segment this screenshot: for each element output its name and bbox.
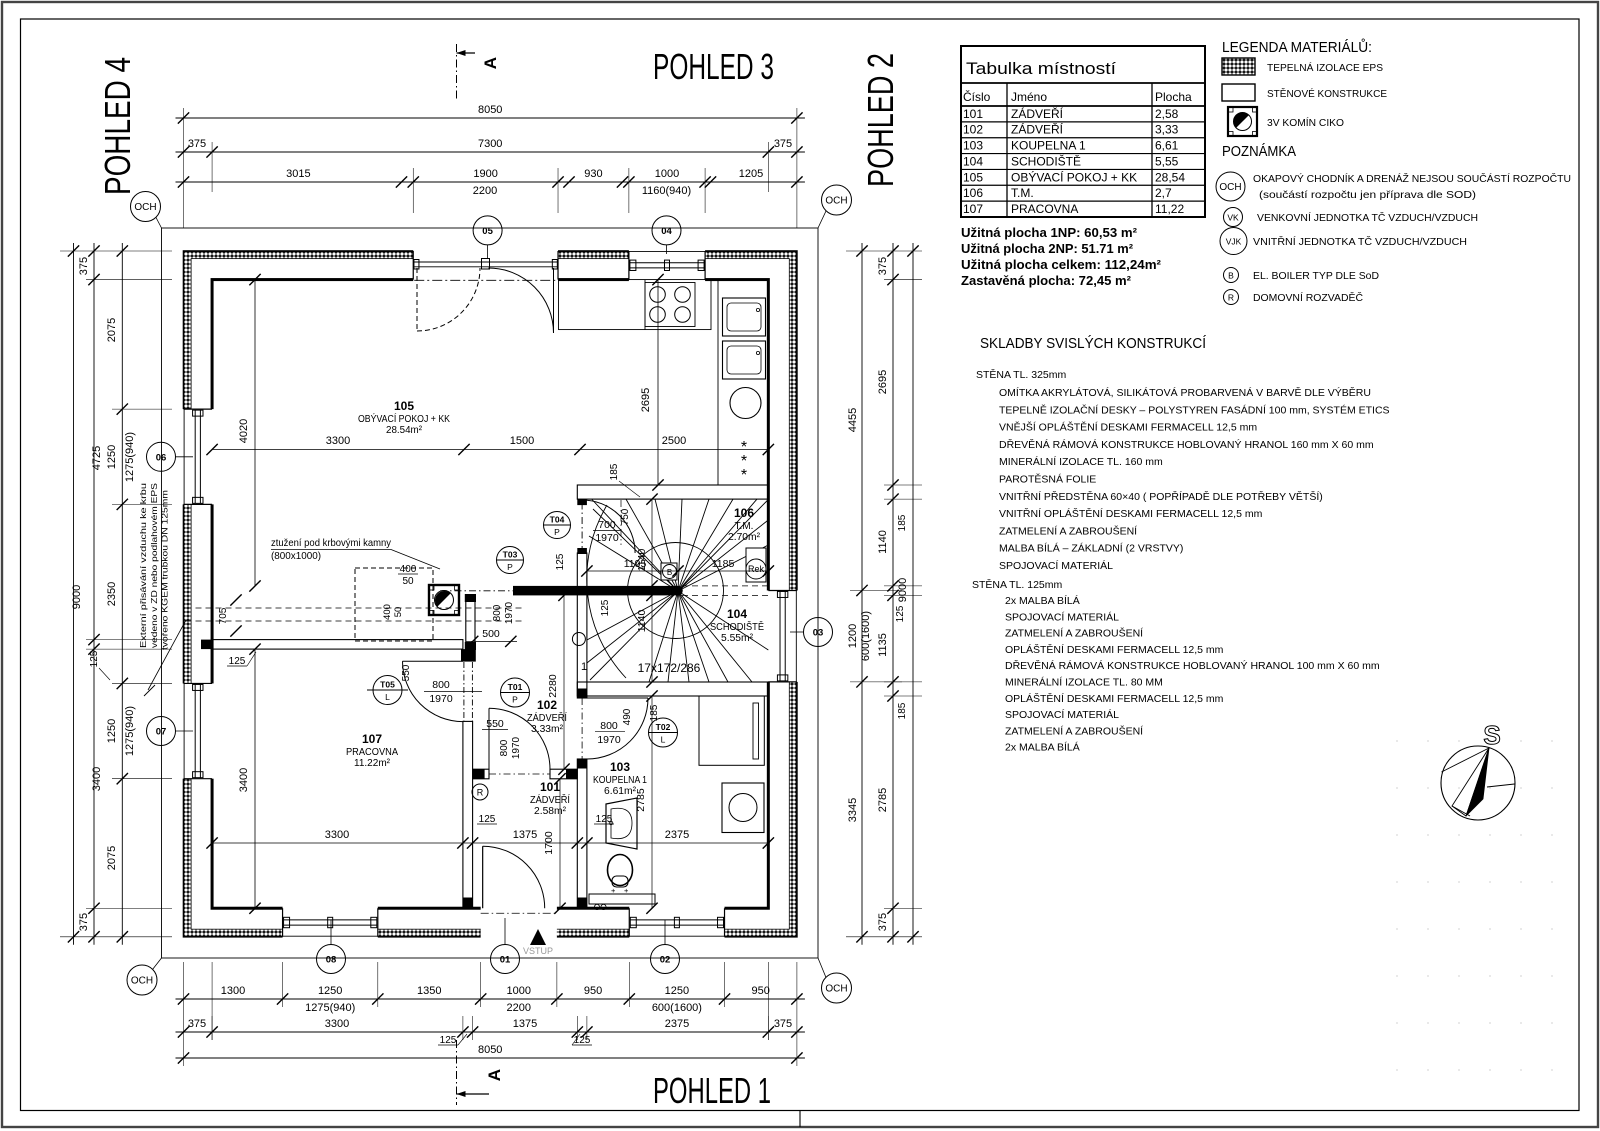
svg-text:3015: 3015 (286, 168, 310, 180)
svg-text:103: 103 (610, 760, 630, 774)
border bottom divider (799, 1111, 801, 1128)
svg-text:Externí přisávání vzduchu ke k: Externí přisávání vzduchu ke krbu (138, 483, 148, 648)
svg-text:T04: T04 (550, 515, 565, 525)
kitchen stove burners (645, 283, 695, 327)
svg-text:TEPELNĚ IZOLAČNÍ DESKY – POLYS: TEPELNĚ IZOLAČNÍ DESKY – POLYSTYREN FASÁ… (999, 403, 1390, 416)
svg-text:tvořeno KGEM trubkou DN 125: tvořeno KGEM trubkou DN 125mm (160, 490, 170, 650)
dimension row pracovna 3300 1375 2375 (212, 842, 768, 844)
svg-text:OCH: OCH (131, 976, 153, 987)
svg-text:600(1600): 600(1600) (860, 611, 872, 661)
svg-text:101: 101 (540, 780, 560, 794)
svg-text:1275(940): 1275(940) (124, 432, 136, 482)
opening left window 1 gap (181, 409, 214, 504)
svg-text:1185: 1185 (712, 558, 735, 570)
svg-text:2075: 2075 (106, 318, 118, 342)
svg-text:VSTUP: VSTUP (523, 946, 553, 956)
dimension right extension lines (846, 250, 922, 252)
dimension stair 1195 1185 row (587, 570, 768, 572)
legend VK note (1224, 208, 1243, 227)
svg-text:MINERÁLNÍ IZOLACE TL. 80 MM: MINERÁLNÍ IZOLACE TL. 80 MM (1005, 676, 1163, 689)
svg-text:9000: 9000 (897, 578, 909, 602)
svg-text:SPOJOVACÍ MATERIÁL: SPOJOVACÍ MATERIÁL (999, 559, 1113, 572)
svg-text:125: 125 (596, 814, 613, 825)
svg-text:OBÝVACÍ POKOJ + KK: OBÝVACÍ POKOJ + KK (358, 412, 450, 425)
svg-text:1970: 1970 (595, 532, 619, 544)
svg-text:2350: 2350 (106, 582, 118, 606)
svg-text:2500: 2500 (662, 435, 686, 447)
svg-text:(800x1000): (800x1000) (271, 550, 321, 562)
svg-text:04: 04 (661, 226, 672, 237)
svg-text:105: 105 (394, 399, 414, 413)
svg-text:4020: 4020 (238, 419, 250, 443)
svg-text:125: 125 (479, 814, 496, 825)
svg-text:ZÁDVEŘÍ: ZÁDVEŘÍ (1011, 122, 1064, 137)
svg-text:1250: 1250 (318, 985, 342, 997)
svg-text:OBÝVACÍ POKOJ + KK: OBÝVACÍ POKOJ + KK (1011, 169, 1137, 184)
svg-text:07: 07 (156, 727, 167, 738)
dimension right chain 4455 1200 3345 (861, 243, 863, 945)
svg-text:3400: 3400 (91, 767, 103, 791)
svg-text:T01: T01 (508, 682, 523, 692)
svg-text:Tabulka místností: Tabulka místností (966, 59, 1116, 78)
svg-text:102: 102 (963, 123, 983, 137)
svg-text:2.70m²: 2.70m² (728, 532, 761, 543)
legend chimney symbol (1228, 107, 1257, 136)
legend VJK note (1220, 228, 1247, 255)
svg-text:50: 50 (402, 576, 414, 587)
dimension stair 1140 vertical (651, 499, 653, 682)
svg-text:8050: 8050 (478, 104, 502, 116)
svg-text:375: 375 (188, 1018, 206, 1030)
door tag T03 (497, 547, 524, 574)
svg-text:375: 375 (877, 913, 889, 931)
axis OCH bottom-right (822, 973, 852, 1003)
dot grid decorative (1396, 740, 1398, 742)
svg-text:400: 400 (400, 564, 417, 575)
dimension top extension lines (412, 168, 414, 213)
svg-text:ZÁDVEŘÍ: ZÁDVEŘÍ (527, 711, 567, 724)
svg-text:(součástí rozpočtu jen příprav: (součástí rozpočtu jen příprava dle SOD) (1259, 189, 1476, 201)
svg-text:PRACOVNA: PRACOVNA (346, 747, 398, 758)
svg-text:Užitná plocha 2NP: 51.71 m²: Užitná plocha 2NP: 51.71 m² (961, 242, 1133, 256)
svg-text:750: 750 (620, 508, 631, 525)
svg-text:185: 185 (897, 702, 908, 719)
interior wall 102/101 (125) (473, 769, 489, 779)
stair winder arcs (587, 505, 626, 678)
svg-text:1250: 1250 (665, 985, 689, 997)
svg-text:STĚNA TL. 125mm: STĚNA TL. 125mm (972, 578, 1063, 591)
svg-text:*: * (741, 467, 747, 484)
svg-text:1140: 1140 (636, 549, 648, 572)
svg-text:125: 125 (229, 656, 246, 667)
svg-text:375: 375 (774, 1018, 792, 1030)
svg-text:125: 125 (574, 1035, 591, 1046)
axis 03 circle and line (790, 631, 804, 633)
axis 06 circle and line (175, 456, 193, 458)
opening right window gap (766, 590, 799, 681)
svg-text:SCHODIŠTĚ: SCHODIŠTĚ (710, 620, 764, 633)
svg-text:02: 02 (660, 955, 671, 966)
svg-text:VNĚJŠÍ OPLÁŠTĚNÍ DESKAMI FERMA: VNĚJŠÍ OPLÁŠTĚNÍ DESKAMI FERMACELL 12,5 … (999, 421, 1257, 434)
svg-text:1970: 1970 (429, 693, 453, 705)
svg-text:STĚNA TL. 325mm: STĚNA TL. 325mm (976, 368, 1067, 381)
exterior wall outer face (184, 251, 797, 937)
axis 05 circle and line (487, 245, 489, 259)
svg-text:1140: 1140 (636, 610, 648, 633)
opening left window 2 gap (181, 683, 214, 778)
air duct dashed lines (186, 607, 526, 609)
svg-text:2x MALBA BÍLÁ: 2x MALBA BÍLÁ (1005, 594, 1080, 607)
svg-text:S: S (1483, 720, 1500, 750)
svg-text:1900: 1900 (473, 168, 497, 180)
window sill outer lines (629, 251, 705, 253)
svg-text:375: 375 (188, 138, 206, 150)
svg-text:B: B (1228, 271, 1234, 281)
svg-text:1000: 1000 (655, 168, 679, 180)
svg-text:3V KOMÍN CIKO: 3V KOMÍN CIKO (1267, 116, 1344, 129)
svg-text:VK: VK (1227, 213, 1239, 223)
svg-text:PRACOVNA: PRACOVNA (1011, 202, 1078, 216)
svg-text:6,61: 6,61 (1155, 139, 1179, 153)
svg-text:L: L (661, 735, 666, 745)
svg-text:107: 107 (963, 202, 983, 216)
svg-text:B: B (667, 568, 672, 577)
chimney 3V KOMIN (429, 585, 459, 615)
dimension 2785 vertical koupelna (651, 696, 653, 908)
svg-text:A: A (485, 1069, 504, 1081)
svg-text:Plocha: Plocha (1155, 90, 1192, 104)
svg-text:5,55: 5,55 (1155, 154, 1179, 168)
door T01 swing (488, 708, 490, 769)
svg-text:1300: 1300 (221, 985, 245, 997)
dimension bottom row segments (176, 998, 805, 1000)
door T05 swing pracovna (403, 660, 463, 662)
dimension bottom extension lines (183, 962, 185, 1066)
svg-text:1250: 1250 (106, 719, 118, 743)
svg-text:950: 950 (752, 985, 770, 997)
svg-text:03: 03 (813, 628, 824, 639)
svg-text:R: R (1228, 293, 1234, 303)
svg-text:800: 800 (432, 679, 450, 691)
door T02 swing koupelna (587, 697, 648, 699)
dimension 2280 vertical 102 (563, 595, 565, 769)
svg-text:T.M.: T.M. (1011, 186, 1034, 200)
svg-text:125: 125 (440, 1035, 457, 1046)
svg-text:1375: 1375 (513, 1018, 537, 1030)
svg-text:930: 930 (584, 168, 602, 180)
interior wall stub near chimney (466, 596, 475, 649)
opening terrace door gap (413, 249, 558, 282)
svg-text:1000: 1000 (507, 985, 531, 997)
svg-text:06: 06 (156, 452, 167, 463)
opening top window gap (629, 249, 705, 282)
legend B note (1224, 268, 1239, 283)
svg-text:DŘEVĚNÁ RÁMOVÁ KONSTRUKCE HOBL: DŘEVĚNÁ RÁMOVÁ KONSTRUKCE HOBLOVANÝ HRAN… (999, 438, 1374, 451)
svg-text:1700: 1700 (543, 831, 555, 855)
svg-text:7300: 7300 (478, 138, 502, 150)
stair winder treads (626, 499, 678, 591)
dimension living room 3300 1500 2500 (212, 449, 768, 451)
svg-text:POHLED 3: POHLED 3 (653, 46, 774, 87)
washbasin (606, 798, 637, 849)
wall junction blocks (201, 640, 212, 650)
svg-text:375: 375 (78, 257, 90, 275)
svg-text:Užitná plocha celkem: 112,24m: Užitná plocha celkem: 112,24m² (961, 258, 1161, 272)
svg-text:ztužení pod krbovými kamny: ztužení pod krbovými kamny (271, 537, 392, 549)
kitchen sink bowls (723, 298, 766, 336)
axis 01 circle and line (504, 918, 506, 945)
door T05 jamb block (461, 649, 476, 662)
svg-text:2200: 2200 (473, 185, 497, 197)
svg-text:950: 950 (584, 985, 602, 997)
door T02 jamb blocks (577, 689, 587, 699)
fireplace stiffening dashed rect (355, 568, 433, 641)
svg-text:08: 08 (326, 955, 337, 966)
svg-text:2,58: 2,58 (1155, 107, 1179, 121)
svg-text:1: 1 (581, 661, 587, 673)
svg-text:VNITŘNÍ OPLÁŠTĚNÍ DESKAMI FERM: VNITŘNÍ OPLÁŠTĚNÍ DESKAMI FERMACELL 12,5… (999, 507, 1263, 520)
svg-text:106: 106 (734, 506, 754, 520)
opening bottom window 2 gap (629, 906, 724, 939)
room table Tabulka mistnosti (961, 46, 1205, 217)
svg-text:T02: T02 (656, 722, 671, 732)
svg-text:R: R (477, 788, 484, 798)
kitchen counter right wall (718, 280, 768, 485)
svg-text:1160(940): 1160(940) (642, 185, 691, 197)
svg-text:2075: 2075 (106, 846, 118, 870)
svg-text:POZNÁMKA: POZNÁMKA (1222, 143, 1296, 160)
interior wall pracovna top (125) (212, 640, 463, 650)
dimension top sublabels 2200 1160(940) (396, 176, 407, 187)
svg-text:2200: 2200 (507, 1002, 531, 1014)
svg-text:P: P (554, 527, 560, 537)
dimension 1700 vertical 101 (559, 779, 561, 908)
interior wall stair top (185) (577, 485, 768, 499)
dimension kitchen 2695 vertical (657, 280, 659, 485)
svg-text:600(1600): 600(1600) (652, 1002, 702, 1014)
svg-text:28,54: 28,54 (1155, 170, 1185, 184)
svg-text:102: 102 (537, 698, 557, 712)
window bottom W3 (282, 908, 284, 937)
svg-text:375: 375 (774, 138, 792, 150)
svg-text:125: 125 (555, 553, 566, 570)
svg-text:05: 05 (482, 226, 493, 237)
svg-text:17x172/286: 17x172/286 (638, 661, 701, 675)
dimension top row 8050 (176, 117, 805, 119)
svg-text:VJK: VJK (1226, 237, 1242, 247)
stair boiler symbol B (661, 563, 677, 580)
exterior wall hatch inner line (191, 259, 789, 930)
dimension left chain 2075 1250 2350 1250 2075 (121, 243, 123, 945)
svg-text:1250: 1250 (106, 445, 118, 469)
opening entry door gap (481, 906, 557, 939)
svg-text:5.55m²: 5.55m² (721, 633, 754, 644)
window left W1 (184, 408, 213, 410)
axis OCH top-left (131, 192, 161, 222)
window right WR (768, 589, 797, 591)
svg-text:TEPELNÁ IZOLACE EPS: TEPELNÁ IZOLACE EPS (1267, 61, 1383, 74)
svg-text:125: 125 (895, 605, 906, 622)
svg-text:1135: 1135 (877, 633, 889, 657)
toilet (608, 855, 633, 886)
svg-text:OPLÁŠTĚNÍ DESKAMI FERMACELL 12: OPLÁŠTĚNÍ DESKAMI FERMACELL 12,5 mm (1005, 692, 1224, 705)
svg-text:3300: 3300 (326, 435, 350, 447)
svg-text:OPLÁŠTĚNÍ DESKAMI FERMACELL 12: OPLÁŠTĚNÍ DESKAMI FERMACELL 12,5 mm (1005, 643, 1224, 656)
door T04 jamb blocks (577, 499, 587, 505)
svg-text:2785: 2785 (635, 788, 647, 812)
svg-text:107: 107 (362, 732, 382, 746)
svg-text:1200: 1200 (847, 624, 859, 648)
door T04 swing stair (581, 500, 583, 553)
svg-text:ZÁDVEŘÍ: ZÁDVEŘÍ (530, 793, 570, 806)
svg-text:P: P (512, 695, 518, 705)
axis 08 circle and line (330, 920, 332, 945)
dimension stair 750 (620, 500, 622, 545)
dimension right chain segments (892, 243, 894, 945)
svg-text:DOMOVNÍ ROZVADĚČ: DOMOVNÍ ROZVADĚČ (1253, 291, 1363, 304)
kitchen counter top wall (559, 280, 711, 330)
svg-text:125: 125 (600, 599, 611, 616)
svg-text:PAROTĚSNÁ FOLIE: PAROTĚSNÁ FOLIE (999, 473, 1096, 486)
svg-text:8050: 8050 (478, 1044, 502, 1056)
svg-text:11,22: 11,22 (1155, 202, 1184, 216)
svg-text:1275(940): 1275(940) (124, 706, 136, 756)
svg-text:1205: 1205 (739, 168, 763, 180)
bath bench (589, 894, 655, 904)
svg-text:1970: 1970 (504, 601, 515, 624)
svg-text:STĚNOVÉ KONSTRUKCE: STĚNOVÉ KONSTRUKCE (1267, 87, 1387, 100)
door tag T02 (649, 718, 678, 747)
svg-text:OCH: OCH (825, 196, 847, 207)
rekuperace box Rek (746, 548, 766, 582)
svg-text:104: 104 (727, 607, 747, 621)
svg-text:800: 800 (600, 720, 618, 732)
svg-text:POHLED 4: POHLED 4 (97, 57, 138, 195)
window bottom W4 (628, 908, 630, 937)
svg-text:2695: 2695 (640, 388, 652, 412)
svg-text:POHLED 2: POHLED 2 (860, 53, 901, 187)
svg-text:KOUPELNA 1: KOUPELNA 1 (593, 775, 647, 786)
svg-text:2375: 2375 (665, 829, 689, 841)
legend wall swatch (1222, 84, 1255, 101)
interior wall koupelna top (185) (577, 682, 768, 696)
svg-text:125: 125 (89, 650, 100, 667)
svg-text:705: 705 (218, 607, 229, 624)
svg-text:550: 550 (486, 718, 504, 730)
svg-text:490: 490 (622, 708, 633, 725)
rozvadec symbol R (472, 784, 488, 800)
rail wall stairs (black) (513, 586, 678, 596)
svg-text:800: 800 (499, 739, 510, 756)
svg-text:1140: 1140 (877, 530, 889, 554)
svg-text:1375: 1375 (513, 829, 537, 841)
dimension top row segments (176, 181, 805, 183)
window top B (628, 251, 630, 280)
svg-text:9000: 9000 (71, 585, 83, 609)
svg-text:1970: 1970 (597, 734, 621, 746)
svg-text:105: 105 (963, 170, 983, 184)
svg-text:P: P (507, 562, 513, 572)
svg-text:ZATMELENÍ A ZABROUŠENÍ: ZATMELENÍ A ZABROUŠENÍ (999, 524, 1137, 537)
svg-text:LEGENDA MATERIÁLŮ:: LEGENDA MATERIÁLŮ: (1222, 38, 1372, 56)
svg-text:50: 50 (393, 607, 404, 618)
svg-text:01: 01 (500, 955, 511, 966)
svg-text:185: 185 (897, 514, 908, 531)
svg-text:MINERÁLNÍ IZOLACE TL. 160 mm: MINERÁLNÍ IZOLACE TL. 160 mm (999, 455, 1163, 468)
svg-text:1500: 1500 (510, 435, 534, 447)
svg-text:185: 185 (609, 463, 620, 480)
svg-text:SCHODIŠTĚ: SCHODIŠTĚ (1011, 153, 1081, 168)
svg-text:1350: 1350 (417, 985, 441, 997)
door tag T05 (373, 676, 402, 705)
svg-text:Rek: Rek (748, 564, 765, 574)
svg-text:3,33: 3,33 (1155, 123, 1179, 137)
interior wall 107/101 vertical (125) (463, 721, 473, 908)
door tag T01 (501, 678, 530, 707)
dimension living 4020 vertical (254, 280, 256, 586)
svg-text:OMÍTKA AKRYLÁTOVÁ, SILIKÁTOVÁ: OMÍTKA AKRYLÁTOVÁ, SILIKÁTOVÁ PROBARVENÁ… (999, 386, 1371, 399)
svg-text:2.58m²: 2.58m² (534, 806, 567, 817)
svg-text:Užitná plocha 1NP: 60,53 m²: Užitná plocha 1NP: 60,53 m² (961, 226, 1137, 240)
svg-text:VENKOVNÍ JEDNOTKA TČ VZDUCH/VZ: VENKOVNÍ JEDNOTKA TČ VZDUCH/VZDUCH (1257, 211, 1478, 224)
section line A bottom (456, 1040, 458, 1105)
svg-text:ZÁDVEŘÍ: ZÁDVEŘÍ (1011, 106, 1064, 121)
svg-text:Zastavěná plocha: 72,45 m²: Zastavěná plocha: 72,45 m² (961, 274, 1131, 288)
dimension pracovna 3400 vertical (254, 649, 256, 908)
terrace door frame and leaves (412, 251, 414, 280)
svg-text:550: 550 (401, 664, 412, 681)
dimension left chain 9000 (73, 243, 75, 945)
svg-text:375: 375 (877, 257, 889, 275)
svg-text:3300: 3300 (325, 829, 349, 841)
svg-text:375: 375 (78, 913, 90, 931)
legend EPS hatch swatch (1222, 58, 1255, 75)
axis 04 circle and line (666, 245, 668, 254)
svg-text:28.54m²: 28.54m² (386, 425, 423, 436)
svg-text:1970: 1970 (511, 736, 522, 759)
exterior wall interior face (212, 280, 768, 909)
svg-text:2785: 2785 (877, 788, 889, 812)
axis 02 circle and line (664, 920, 666, 945)
dimension bottom row 375 3300 1375 2375 375 (176, 1031, 805, 1033)
svg-text:500: 500 (482, 628, 500, 640)
svg-text:700: 700 (598, 519, 616, 531)
svg-text:OCH: OCH (134, 202, 156, 213)
svg-text:T05: T05 (380, 680, 395, 690)
svg-text:KOUPELNA 1: KOUPELNA 1 (1011, 139, 1086, 153)
svg-text:2x MALBA BÍLÁ: 2x MALBA BÍLÁ (1005, 741, 1080, 754)
svg-text:4455: 4455 (847, 408, 859, 432)
svg-text:1275(940): 1275(940) (305, 1002, 355, 1014)
svg-text:SPOJOVACÍ MATERIÁL: SPOJOVACÍ MATERIÁL (1005, 610, 1119, 623)
svg-text:2,7: 2,7 (1155, 186, 1172, 200)
compass rose (1441, 746, 1515, 820)
exterior wall EPS hatch band (184, 251, 797, 937)
svg-text:DŘEVĚNÁ RÁMOVÁ KONSTRUKCE HOBL: DŘEVĚNÁ RÁMOVÁ KONSTRUKCE HOBLOVANÝ HRAN… (1005, 659, 1380, 672)
axis OCH bottom-left (127, 965, 157, 995)
dimension left chain 375 4725 125 3400 375 (93, 243, 95, 945)
dimension top row 375 7300 375 (176, 151, 805, 153)
svg-text:Jméno: Jméno (1011, 90, 1047, 104)
svg-text:800: 800 (492, 604, 503, 621)
svg-text:101: 101 (963, 107, 983, 121)
svg-text:6.61m²: 6.61m² (604, 786, 637, 797)
svg-text:106: 106 (963, 186, 983, 200)
eaves walkway outline OCH (162, 228, 819, 958)
svg-text:ZATMELENÍ A ZABROUŠENÍ: ZATMELENÍ A ZABROUŠENÍ (1005, 724, 1143, 737)
interior wall stairwell left (125) (577, 553, 587, 698)
entry door leaf and swing (482, 846, 484, 908)
